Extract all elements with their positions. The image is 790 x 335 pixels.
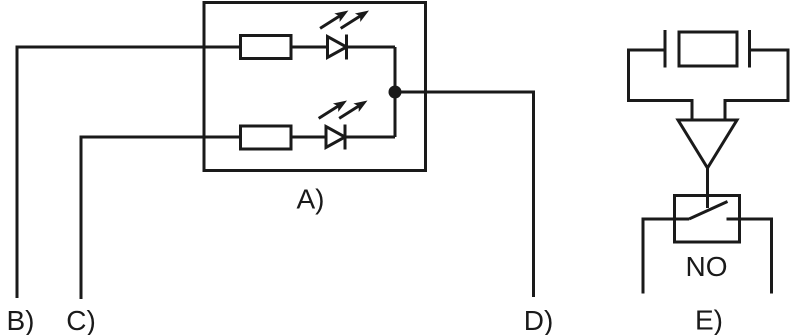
svg-text:B): B): [7, 305, 35, 335]
piezo element plates: [664, 30, 667, 68]
wire D1 to node: [347, 46, 396, 49]
switch box: [675, 196, 740, 243]
switch left contact and wire: [643, 219, 689, 294]
junction node: [389, 86, 402, 99]
LED D2: [326, 125, 345, 150]
resistor R2: [241, 126, 292, 149]
wire R1 to D1: [291, 46, 328, 49]
svg-text:NO: NO: [686, 251, 728, 282]
LED D2 light arrows: [316, 96, 370, 122]
resistor R1: [241, 36, 292, 59]
wire B: [17, 47, 241, 298]
wire D2 to node: [345, 136, 395, 139]
piezo crystal body: [679, 32, 737, 66]
wire C: [81, 137, 241, 299]
wire piezo left to amplifier: [629, 50, 693, 121]
LED D1 light arrows: [317, 6, 371, 32]
wire piezo right to amplifier: [725, 50, 788, 121]
svg-text:D): D): [524, 305, 554, 335]
wire vertical joining LED outputs: [394, 47, 397, 137]
switch blade: [689, 202, 728, 220]
svg-text:E): E): [695, 305, 723, 335]
optocoupler box A: [204, 3, 426, 171]
switch right contact and wire: [727, 219, 772, 294]
wire amplifier to switch: [706, 168, 709, 208]
wire D: [395, 92, 534, 297]
LED D1: [328, 35, 347, 60]
amplifier triangle: [678, 120, 737, 168]
svg-text:C): C): [66, 305, 96, 335]
svg-text:A): A): [297, 184, 325, 215]
wire R2 to D2: [291, 136, 327, 139]
